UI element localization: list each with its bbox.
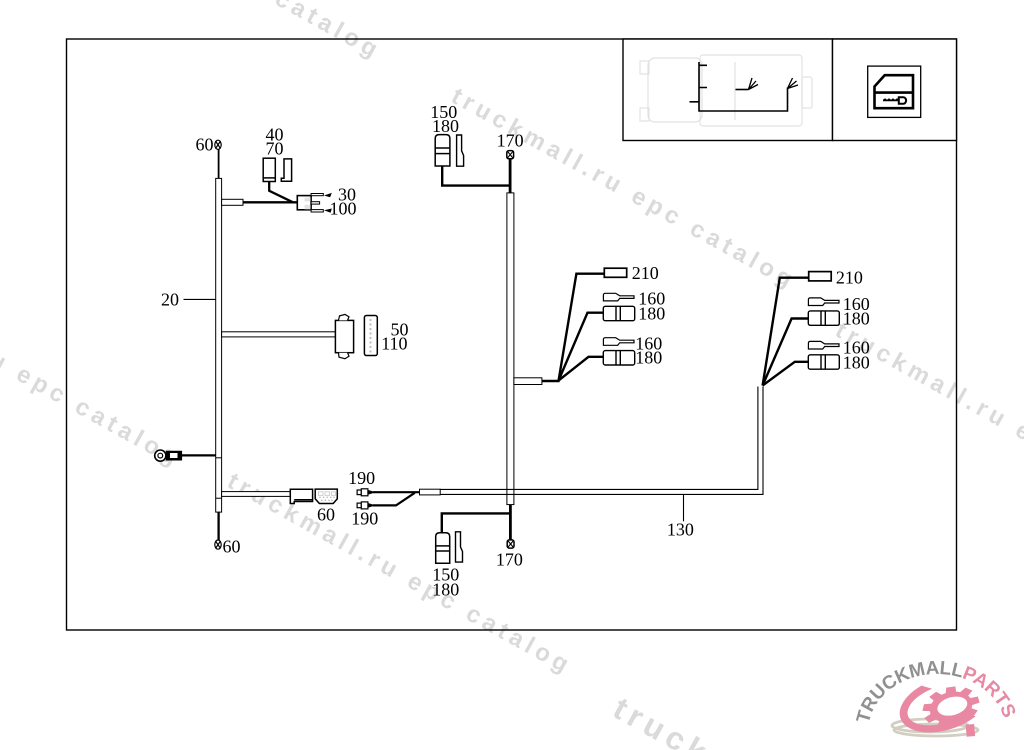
connector 170 top [507, 151, 514, 159]
svg-text:20: 20 [161, 289, 179, 309]
watermark tile 2 [447, 83, 801, 296]
door icon [875, 75, 914, 108]
arrows into 30/100 [324, 193, 332, 197]
svg-text:truckmall.ru epc catalog: truckmall.ru epc catalog [223, 468, 577, 681]
connector 60 receptacle [315, 489, 337, 503]
harness tick 2 [216, 497, 222, 499]
svg-text:210: 210 [836, 267, 863, 287]
watermark tile 5 [831, 317, 1024, 530]
middle harness sleeve [507, 193, 514, 505]
wires right fan [763, 278, 809, 386]
connector 180 right lower [808, 355, 839, 369]
door key/handle [883, 98, 899, 101]
svg-text:110: 110 [381, 333, 407, 353]
svg-text:180: 180 [432, 579, 459, 599]
blade 150/180 bottom [456, 532, 463, 562]
svg-text:130: 130 [667, 520, 694, 540]
component 40/70 body [263, 158, 291, 181]
blade 150/180 top [457, 135, 464, 166]
wire 190 lower [373, 493, 415, 506]
logo pink swoosh crescent [900, 686, 976, 733]
watermark tile 4 [223, 468, 577, 681]
svg-text:180: 180 [635, 348, 662, 368]
svg-text:180: 180 [843, 352, 870, 372]
connector 110 header [364, 316, 377, 356]
crow foot middle [749, 78, 759, 90]
truck chassis outline (faint) [640, 55, 812, 126]
component 150/180 bottom [436, 533, 450, 564]
crow foot right [788, 78, 799, 89]
long wire 130 (double line with corner) [440, 387, 763, 495]
svg-text:180: 180 [432, 116, 459, 136]
wires to terminals (middle fan) [542, 274, 604, 381]
terminal 210 right [809, 272, 832, 281]
svg-text:210: 210 [632, 263, 659, 283]
blade 160 right upper [808, 298, 839, 306]
svg-text:170: 170 [496, 549, 523, 569]
watermark tile 1 [32, 0, 386, 65]
svg-text:truckmall.ru epc catalog: truckmall.ru epc catalog [0, 261, 186, 474]
inset box: truck overview [623, 39, 833, 141]
connector 30/100 [297, 194, 323, 213]
harness tick [216, 457, 222, 459]
sleeve stub to 30/100 [222, 199, 243, 205]
svg-text:190: 190 [351, 509, 378, 529]
wire from 60 to harness [218, 149, 220, 179]
watermark tile 3 [0, 261, 186, 474]
svg-text:100: 100 [330, 199, 357, 219]
connector 180 right upper [808, 311, 839, 325]
wire sleeve to 50/110 [222, 332, 336, 337]
svg-text:60: 60 [223, 537, 241, 557]
wire 190 upper [373, 491, 420, 493]
terminal 190 upper [357, 489, 368, 496]
svg-text:70: 70 [266, 138, 284, 158]
svg-text:180: 180 [638, 304, 665, 324]
wire 40/70 to junction [269, 182, 293, 203]
gear stem bottom [966, 724, 976, 737]
wire sleeve to 60 plug [222, 492, 291, 497]
door icon inner square [868, 66, 921, 117]
svg-text:60: 60 [196, 135, 214, 155]
connector eyelet 60 bottom [215, 540, 221, 549]
wire middle harness bottom to 170 [509, 505, 512, 541]
svg-text:170: 170 [497, 131, 524, 151]
truck harness drawing in inset [690, 62, 799, 111]
watermark tile 6 [607, 690, 1024, 750]
sleeve stub middle [514, 378, 542, 385]
connector 180 middle lower [603, 351, 634, 365]
component 150/180 top [435, 135, 450, 166]
blade 160 middle lower [603, 338, 634, 346]
inset box: door icon [833, 39, 957, 141]
wire ring terminal to harness [182, 454, 216, 456]
wire to 30/100 [243, 201, 298, 203]
harness main line [699, 62, 788, 111]
blade 160 right lower [808, 341, 839, 349]
connector 60 plug [290, 489, 312, 503]
wire 150/180 to 170 [442, 166, 510, 186]
connector eyelet 60 top [215, 140, 221, 149]
harness sleeve 20 (left vertical) [216, 178, 222, 512]
wire bottom 60 [217, 512, 219, 541]
tick marks [690, 65, 708, 102]
svg-text:truckmall.ru epc catalog: truckmall.ru epc catalog [32, 0, 386, 65]
border frame [67, 39, 957, 630]
connector 170 bottom [507, 540, 514, 548]
connector 50/110 plug [335, 314, 353, 358]
ring terminal left [155, 450, 166, 461]
logo gear [918, 680, 987, 747]
blade 160 middle upper [603, 293, 634, 301]
sleeve long wire start [420, 489, 441, 495]
wire branch to 150/180 bottom [442, 513, 511, 532]
terminal 190 lower [357, 502, 368, 509]
leader line 20 [184, 298, 216, 300]
terminal 210 middle [604, 268, 626, 277]
connector 180 middle upper [603, 306, 634, 320]
logo base swoosh (gray ellipses) [892, 719, 978, 736]
svg-text:190: 190 [348, 468, 375, 488]
svg-text:180: 180 [843, 309, 870, 329]
svg-text:60: 60 [317, 505, 335, 525]
leader 130 [683, 494, 685, 521]
wire stub to middle crow foot [736, 89, 749, 91]
